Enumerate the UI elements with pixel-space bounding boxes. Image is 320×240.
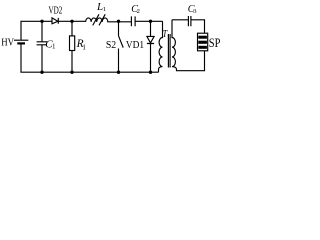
- svg-text:SP: SP: [209, 36, 220, 50]
- svg-text:VD2: VD2: [49, 6, 63, 17]
- svg-text:1: 1: [82, 44, 86, 52]
- svg-text:1: 1: [167, 33, 170, 40]
- svg-text:1: 1: [103, 6, 106, 13]
- svg-text:S2: S2: [106, 39, 116, 51]
- svg-text:HV: HV: [1, 37, 14, 49]
- svg-text:VD1: VD1: [126, 39, 144, 51]
- svg-text:1: 1: [52, 43, 56, 51]
- svg-text:2: 2: [137, 8, 140, 15]
